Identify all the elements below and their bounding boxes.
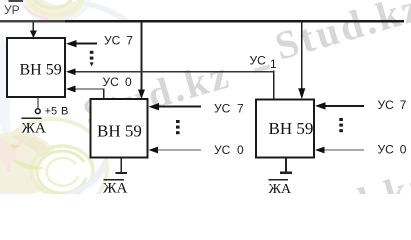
svg-text:ЖА: ЖА bbox=[22, 121, 46, 137]
svg-text:1: 1 bbox=[270, 57, 277, 71]
svg-text:УС: УС bbox=[103, 75, 120, 89]
svg-text:УС: УС bbox=[250, 54, 267, 68]
svg-text:УС: УС bbox=[378, 98, 395, 112]
svg-text:0: 0 bbox=[237, 143, 244, 157]
svg-text:7: 7 bbox=[400, 98, 407, 112]
svg-text:7: 7 bbox=[126, 34, 133, 48]
svg-text:7: 7 bbox=[237, 102, 244, 116]
svg-text:+5: +5 bbox=[45, 105, 58, 117]
svg-text:ВН 59: ВН 59 bbox=[20, 62, 62, 79]
svg-text:ВН 59: ВН 59 bbox=[269, 119, 314, 138]
svg-text:УС: УС bbox=[378, 143, 395, 157]
svg-text:0: 0 bbox=[400, 143, 407, 157]
svg-text:В: В bbox=[61, 105, 68, 117]
svg-text:УР: УР bbox=[4, 3, 20, 17]
svg-text:ЖА: ЖА bbox=[103, 181, 127, 195]
svg-text:ВН 59: ВН 59 bbox=[97, 122, 142, 141]
svg-text:УС: УС bbox=[214, 143, 231, 157]
svg-text:Stud.kz: Stud.kz bbox=[270, 0, 411, 69]
svg-text:0: 0 bbox=[125, 75, 132, 89]
svg-text:Stud.kz: Stud.kz bbox=[278, 161, 411, 194]
svg-text:УС: УС bbox=[104, 34, 121, 48]
svg-text:УС: УС bbox=[214, 102, 231, 116]
svg-text:ЖА: ЖА bbox=[269, 182, 293, 194]
